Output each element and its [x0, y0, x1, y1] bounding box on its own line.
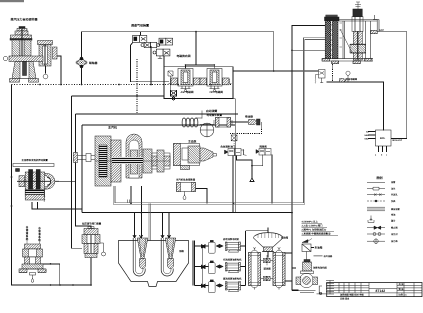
solenoid valve V3: [159, 38, 173, 45]
svg-text:启动油泵电动机: 启动油泵电动机: [222, 238, 240, 241]
wire AST box outline: [164, 67, 233, 99]
svg-text:隔离阀: 隔离阀: [260, 144, 268, 148]
barring gear G1: [200, 123, 214, 137]
legend labels: [390, 181, 401, 243]
svg-text:油泵电动机组: 油泵电动机组: [313, 267, 327, 270]
wire AST header: [233, 70, 319, 72]
wire lower mid horizontal: [76, 114, 239, 229]
svg-text:BXL4.5T: BXL4.5T: [393, 139, 403, 142]
wire long dotted oil line: [12, 84, 235, 86]
svg-text:油箱: 油箱: [179, 249, 184, 253]
box inlet check: [168, 71, 173, 90]
relay leader labels: [365, 131, 370, 141]
gray supply pipe double line: [113, 38, 325, 204]
servo frame: [339, 15, 378, 59]
svg-text:主汽机危急遮断器: 主汽机危急遮断器: [176, 178, 196, 182]
svg-text:OPC电磁阀: OPC电磁阀: [210, 90, 224, 94]
pilot box: [231, 135, 237, 148]
main turbine T1: [73, 134, 170, 186]
coupling C1: [76, 57, 87, 68]
svg-text:3.3 此-1.5MPa 阀门: 3.3 此-1.5MPa 阀门: [302, 224, 323, 228]
arrow mark: [302, 239, 312, 243]
tank strainer right: [161, 238, 176, 276]
OPC solenoid valve: [200, 69, 232, 90]
title block small text: [340, 283, 407, 301]
oil injector: [249, 119, 261, 125]
wire oil pump bottom: [292, 248, 314, 291]
wire coupling riser: [81, 32, 83, 85]
wire top main header: [82, 32, 274, 71]
wire tank outlet riser: [193, 241, 202, 286]
tick marks near drain: [128, 200, 130, 204]
svg-text:滤油器: 滤油器: [264, 267, 272, 271]
notes block: [302, 220, 332, 236]
wire servo dashed drop: [332, 62, 334, 82]
low pressure valve label (vertical text): [25, 225, 42, 242]
solenoid valve V4: [153, 49, 170, 58]
svg-text:蒸汽压力自动调节器: 蒸汽压力自动调节器: [11, 18, 39, 22]
isolation valve: [256, 149, 271, 156]
svg-text:电动盘车装置: 电动盘车装置: [207, 113, 223, 117]
wire servo drain to relay: [327, 82, 384, 131]
wire right long riser: [292, 26, 325, 291]
wire solenoid risers: [141, 32, 165, 93]
main tank symbol box: [302, 244, 311, 252]
svg-text:去调速系统: 去调速系统: [25, 225, 29, 241]
wire turbine drains: [131, 186, 207, 203]
k07 stub wire: [373, 20, 407, 32]
oil tank outline: [119, 241, 189, 287]
wire low valve branch: [72, 96, 83, 248]
svg-text:第 张: 第 张: [399, 288, 405, 291]
wire low drain runs: [41, 258, 91, 286]
pump unit 3: [209, 280, 241, 293]
wire gear unit to box: [59, 180, 76, 182]
filter column right: [273, 248, 285, 290]
svg-text:危急遮断油门: 危急遮断油门: [221, 144, 236, 148]
svg-text:高压油管: 高压油管: [391, 208, 401, 211]
drain valve small: [340, 79, 347, 82]
servomotor stack: [325, 15, 343, 59]
servo base: [322, 59, 373, 64]
turbine emergency governor: [177, 183, 196, 200]
drain ladder: [317, 281, 335, 295]
AST solenoid valve: [169, 69, 201, 90]
wire tank feeders: [135, 213, 170, 238]
pump unit 2: [209, 261, 241, 274]
wire injector link: [231, 121, 249, 123]
legend rows: [367, 182, 385, 244]
bracket mark: [319, 286, 322, 295]
svg-text:油系统图 制图 校对 审核: 油系统图 制图 校对 审核: [340, 294, 365, 297]
start spring: [182, 111, 202, 128]
wire pendant: [45, 62, 47, 74]
svg-text:节流孔: 节流孔: [391, 194, 398, 197]
title block table: [327, 283, 422, 297]
cooler line: [314, 255, 323, 257]
svg-text:直流润滑油泵电机: 直流润滑油泵电机: [223, 277, 242, 280]
main oil pump P1: [174, 144, 217, 170]
wire oil injector dashed: [230, 123, 262, 134]
solenoid valve V1: [133, 35, 147, 42]
wire filter links: [268, 249, 292, 282]
svg-text:主油泵: 主油泵: [188, 140, 197, 144]
relay pin labels: [375, 154, 388, 157]
relay box BXL: [376, 130, 392, 146]
wire regulator to dotted: [57, 56, 61, 85]
steam pressure regulator U1: [3, 27, 57, 83]
box around turbine: [82, 99, 235, 213]
return oil funnel: [254, 233, 283, 252]
centrifugal oil pump: [296, 260, 318, 293]
wire return tank feed: [246, 228, 269, 234]
svg-text:8T142: 8T142: [376, 289, 386, 293]
svg-text:低压调节阀门装置: 低压调节阀门装置: [81, 222, 102, 226]
svg-text:比例 1:1: 比例 1:1: [399, 294, 408, 297]
wire bottom long run: [82, 209, 292, 213]
tank strainer left: [133, 238, 148, 276]
wire valve1 elbow drop: [130, 42, 169, 82]
small pilot valve on line: [171, 90, 177, 96]
turning motor cylinder: [214, 118, 232, 128]
svg-text:BXL: BXL: [380, 137, 386, 140]
wire AST supply tee: [186, 32, 215, 69]
wire left tall line: [12, 85, 92, 286]
gauge circle: [346, 71, 350, 83]
pressure reducing valve bottom-left: [19, 228, 46, 282]
low pressure regulator: [82, 227, 106, 258]
wire relay leaders: [368, 132, 376, 139]
emergency trip valve: [225, 149, 247, 156]
wire pump suction main: [245, 231, 247, 286]
wire pump drains: [32, 202, 82, 209]
filter valves: [261, 255, 274, 281]
svg-text:截止阀: 截止阀: [390, 227, 398, 230]
svg-text:1.系统图 中管路按规定敷设: 1.系统图 中管路按规定敷设: [302, 232, 332, 236]
svg-text:仪表: 仪表: [390, 200, 396, 203]
aux oil pump gear unit: [13, 164, 59, 203]
wire unit stubs: [195, 246, 246, 286]
solenoid valve V2: [141, 42, 160, 47]
svg-text:日期 签名: 日期 签名: [340, 298, 349, 301]
svg-text:图例: 图例: [377, 176, 383, 180]
svg-text:主汽机: 主汽机: [108, 126, 117, 130]
svg-text:主油泵和发电机传动装置: 主油泵和发电机传动装置: [22, 158, 49, 162]
wire servo feed mid: [292, 49, 325, 51]
svg-text:联轴器: 联轴器: [89, 61, 98, 65]
wire trip valve drops: [233, 155, 272, 214]
top-left gray bar: [0, 0, 24, 2]
svg-text:2.图中P1 为控制油压力: 2.图中P1 为控制油压力: [302, 228, 327, 232]
thick tank feed pipe: [149, 203, 151, 240]
wire relay pins: [379, 146, 387, 152]
drain triangle: [250, 178, 254, 181]
svg-text:去润滑系统: 去润滑系统: [37, 226, 41, 242]
svg-text:喷油器: 喷油器: [245, 115, 253, 119]
svg-text:4.500MPa 以上: 4.500MPa 以上: [302, 220, 319, 224]
svg-text:调速气动装置: 调速气动装置: [131, 24, 149, 28]
feeder funnel mouths: [133, 235, 171, 238]
wire dashed pilot drop: [136, 59, 138, 114]
svg-text:启动弹簧: 启动弹簧: [205, 109, 217, 113]
svg-text:电磁换向阀: 电磁换向阀: [177, 54, 191, 58]
svg-text:压力表: 压力表: [390, 240, 398, 243]
wire relay right riser: [391, 32, 407, 139]
wire mid horizontal: [72, 95, 165, 97]
svg-text:共 张: 共 张: [399, 283, 405, 286]
svg-text:AST电磁阀: AST电磁阀: [181, 90, 194, 94]
pump unit 1: [209, 240, 241, 253]
filter column left: [249, 248, 261, 290]
servo piston cylinder: [350, 2, 366, 60]
svg-text:主油箱: 主油箱: [315, 246, 323, 250]
svg-text:去冷油器: 去冷油器: [324, 255, 334, 258]
svg-text:法兰对: 法兰对: [391, 233, 398, 236]
relief valve small: [315, 70, 325, 84]
